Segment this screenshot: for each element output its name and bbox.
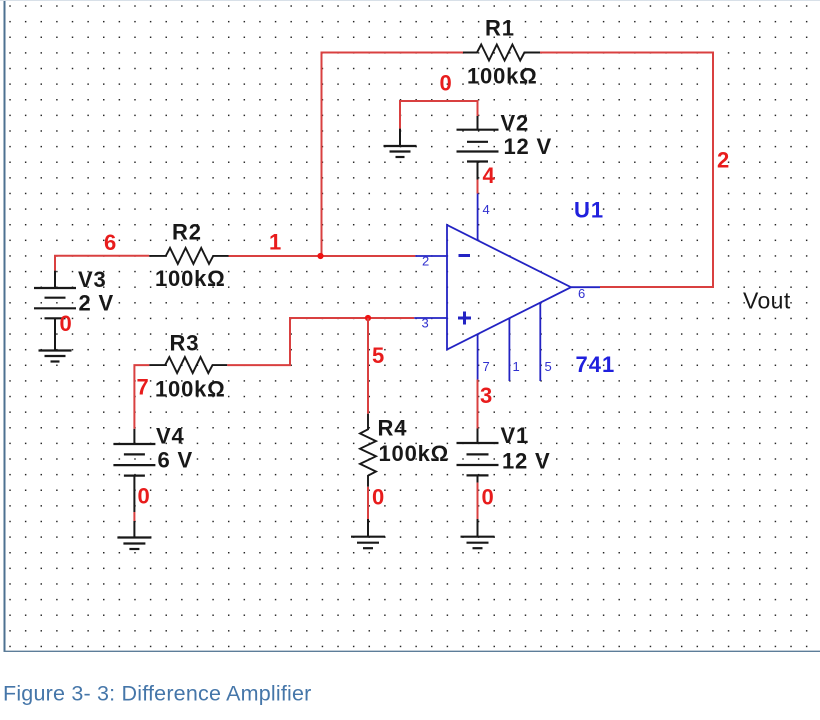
pin 7 stub	[477, 334, 479, 380]
wire V2 minus to op-amp pin4 (node 4)	[477, 180, 479, 194]
battery V4	[113, 424, 193, 513]
svg-text:1: 1	[513, 359, 520, 374]
junction node 5	[365, 315, 371, 321]
svg-text:R2: R2	[172, 220, 202, 245]
svg-text:0: 0	[440, 71, 452, 96]
wire V2 top to ground (node 0)	[400, 101, 478, 129]
battery V2	[457, 111, 552, 180]
ground (R4)	[351, 519, 385, 548]
wire V3 to R2 (node 6)	[55, 256, 149, 271]
ground (V1)	[461, 519, 495, 548]
svg-text:7: 7	[137, 375, 149, 400]
svg-text:2: 2	[717, 148, 729, 173]
svg-text:100kΩ: 100kΩ	[467, 64, 538, 89]
svg-text:U1: U1	[574, 198, 604, 223]
svg-text:5: 5	[372, 343, 384, 368]
svg-text:V1: V1	[501, 423, 530, 448]
svg-text:12 V: 12 V	[502, 449, 550, 474]
svg-text:Figure 3- 3: Difference Amplif: Figure 3- 3: Difference Amplifier	[3, 682, 312, 706]
wire V4 minus to ground (node 0)	[133, 512, 135, 521]
ground (V2)	[384, 129, 417, 157]
svg-text:3: 3	[480, 383, 492, 408]
ground (V4)	[117, 521, 151, 549]
bottom sheet border	[4, 650, 820, 652]
svg-text:0: 0	[482, 485, 494, 510]
svg-text:2: 2	[422, 254, 429, 269]
wire feedback left vertical (node 1 to R1)	[322, 53, 464, 257]
pin 6 stub	[571, 286, 600, 288]
resistor R4	[360, 414, 449, 487]
svg-text:R3: R3	[170, 331, 200, 356]
svg-text:0: 0	[372, 485, 384, 510]
svg-text:5: 5	[545, 359, 552, 374]
wire R3 to op-amp pin3 (node 5)	[227, 318, 414, 365]
pin 2 stub	[415, 255, 447, 257]
resistor R1	[463, 16, 540, 89]
svg-text:6: 6	[104, 230, 116, 255]
wire pin7 to V1 (node 3)	[477, 380, 479, 429]
svg-text:0: 0	[138, 484, 150, 509]
svg-text:R1: R1	[485, 16, 515, 41]
ground (V3)	[39, 351, 72, 362]
resistor R2	[149, 220, 228, 292]
svg-text:V2: V2	[501, 111, 530, 136]
wire feedback right (R1 to output, node 2)	[540, 53, 713, 288]
battery V1	[457, 423, 551, 483]
op-amp U1	[447, 198, 615, 378]
svg-text:4: 4	[483, 163, 496, 188]
svg-text:7: 7	[483, 359, 490, 374]
wire V4 to R3 (node 7)	[134, 365, 149, 429]
svg-text:100kΩ: 100kΩ	[155, 377, 226, 402]
svg-text:100kΩ: 100kΩ	[155, 266, 226, 291]
svg-text:Vout: Vout	[743, 288, 791, 314]
svg-text:V3: V3	[78, 267, 107, 292]
svg-text:4: 4	[483, 202, 490, 217]
svg-text:3: 3	[422, 316, 429, 331]
svg-text:100kΩ: 100kΩ	[379, 441, 450, 466]
junction node 1	[317, 253, 323, 259]
pin 4 stub	[477, 194, 479, 241]
pin 5 stub	[539, 303, 541, 382]
svg-text:1: 1	[269, 230, 281, 255]
pin 3 stub	[414, 317, 447, 319]
resistor R3	[149, 331, 227, 402]
svg-text:0: 0	[60, 311, 72, 336]
wire R2 to op-amp pin2 (node 1)	[229, 255, 416, 257]
svg-text:R4: R4	[378, 416, 408, 441]
top faint border	[0, 0, 820, 2]
wire V1 minus to ground (node 0)	[477, 483, 479, 519]
svg-text:6 V: 6 V	[158, 448, 193, 473]
battery V3	[34, 267, 114, 351]
svg-text:12 V: 12 V	[504, 134, 552, 159]
left sheet border	[4, 0, 6, 652]
svg-text:741: 741	[576, 352, 616, 377]
wire node5 to R4	[367, 318, 369, 414]
wire R4 to ground (node 0)	[367, 487, 369, 519]
svg-text:V4: V4	[156, 424, 185, 449]
pin 1 stub	[508, 318, 510, 381]
svg-text:2 V: 2 V	[79, 291, 114, 316]
svg-text:6: 6	[578, 286, 585, 301]
